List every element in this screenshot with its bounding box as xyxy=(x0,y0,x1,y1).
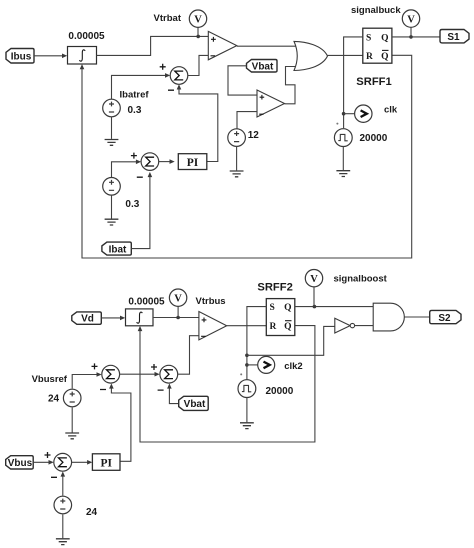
svg-text:V: V xyxy=(310,274,318,285)
output tag S2 xyxy=(430,310,461,323)
node Vtrbat junction xyxy=(196,35,200,39)
svg-text:R: R xyxy=(270,322,277,332)
wire SRFF1 Qbar to integrator reset xyxy=(80,55,412,258)
ground xyxy=(230,171,244,177)
op-amp comparator U3 xyxy=(257,90,285,117)
svg-text:Ibat: Ibat xyxy=(109,245,127,256)
wire Ibat to summer2 minus xyxy=(131,172,152,249)
svg-text:V: V xyxy=(194,15,202,26)
wire op-amp3 output to SRFF2 R xyxy=(227,325,267,327)
svg-text:Ibatref: Ibatref xyxy=(120,90,150,101)
wire OR output to SRFF1 R xyxy=(328,54,363,56)
ground xyxy=(336,171,350,177)
PI block PI2 xyxy=(92,454,120,471)
wire op-amp2 output to OR gate xyxy=(285,67,299,104)
dc source 24 xyxy=(54,496,72,514)
op-amp comparator U5 xyxy=(199,312,227,340)
svg-text:PI: PI xyxy=(100,457,112,469)
wire Ibatref source to summer1 xyxy=(112,73,171,99)
svg-text:Q: Q xyxy=(284,322,291,332)
svg-text:signalboost: signalboost xyxy=(334,274,388,285)
svg-text:Vd: Vd xyxy=(81,314,94,325)
summer S_3 xyxy=(92,363,120,389)
wire PI output to summer1 minus xyxy=(177,84,218,161)
wire summer1 output to op-amp minus xyxy=(188,55,209,75)
node clk junction xyxy=(342,112,346,116)
wire integrator output to op-amp xyxy=(97,36,209,55)
svg-text:SRFF1: SRFF1 xyxy=(356,76,391,88)
svg-text:V: V xyxy=(407,14,415,25)
output tag S1 xyxy=(440,30,469,44)
svg-text:Vbus: Vbus xyxy=(8,458,33,469)
svg-text:Q: Q xyxy=(381,52,388,62)
svg-text:signalbuck: signalbuck xyxy=(351,5,401,16)
node dot xyxy=(240,373,242,375)
wire summer3 to summer4 xyxy=(120,372,160,377)
PI block PI1 xyxy=(178,154,207,170)
svg-text:Vtrbus: Vtrbus xyxy=(196,296,226,307)
svg-text:0.3: 0.3 xyxy=(128,105,142,116)
integrator U1 (0.00005) xyxy=(68,47,97,65)
wire 24V source to summer3 xyxy=(72,372,102,388)
wire clock node to SRFF2 S xyxy=(247,307,266,380)
svg-text:0.00005: 0.00005 xyxy=(128,297,165,308)
svg-text:0.3: 0.3 xyxy=(125,199,139,210)
svg-text:S1: S1 xyxy=(447,32,460,43)
wire junction to inverter xyxy=(247,326,335,355)
wire junction to clk2 probe xyxy=(247,364,258,366)
wire summer4 output to op-amp3 minus xyxy=(178,336,199,375)
op-amp comparator U2 xyxy=(208,31,237,59)
node clk2 junction xyxy=(245,363,249,367)
wire source to ground xyxy=(111,195,113,219)
wire PI2 output to summer3 minus xyxy=(109,383,131,461)
wire summer2 to PI xyxy=(159,159,175,164)
wire 24V source2 to summer5 minus xyxy=(61,471,66,495)
label tag Ibat xyxy=(102,242,131,256)
svg-text:PI: PI xyxy=(187,157,199,169)
wire 0.3 source to summer2 xyxy=(112,160,142,178)
summer S_1 xyxy=(160,64,188,90)
svg-text:Q: Q xyxy=(284,303,291,313)
label tag Ibus xyxy=(6,49,34,64)
wire junction to clk probe xyxy=(344,113,355,115)
label tag Vbat xyxy=(247,60,278,73)
wire AND output to S2 xyxy=(404,316,429,318)
summer S_4 xyxy=(151,364,178,390)
OR gate G1 xyxy=(294,41,328,70)
svg-text:Vbat: Vbat xyxy=(252,61,274,72)
svg-text:S: S xyxy=(366,33,371,43)
svg-text:0.00005: 0.00005 xyxy=(68,31,105,42)
ground xyxy=(56,539,70,545)
voltmeter signalboost xyxy=(305,270,322,307)
SR flip-flop SRFF1 xyxy=(363,28,392,63)
svg-text:Vbat: Vbat xyxy=(184,399,206,410)
node dot xyxy=(336,123,338,125)
dc source 24 xyxy=(63,389,81,407)
dc source 12 xyxy=(228,129,246,147)
voltmeter signalbuck xyxy=(402,10,419,37)
SR flip-flop SRFF2 xyxy=(266,299,295,336)
wire summer5 to PI2 xyxy=(72,460,93,465)
label tag Vd xyxy=(72,312,102,325)
ground xyxy=(240,423,254,429)
voltmeter Vtrbus xyxy=(169,289,186,317)
svg-text:R: R xyxy=(366,52,373,62)
wire source to ground xyxy=(71,407,73,432)
wire Vd to integrator2 xyxy=(101,316,125,321)
node signalbuck junction xyxy=(409,35,413,39)
label tag Vbus xyxy=(6,456,34,470)
svg-text:Vtrbat: Vtrbat xyxy=(154,13,182,24)
wire source to ground xyxy=(62,514,64,538)
voltmeter Vtrbat xyxy=(189,10,206,36)
summer S_5 xyxy=(45,452,72,477)
label tag Vbat xyxy=(179,396,209,410)
wire SRFF2 Qbar to integrator2 reset xyxy=(138,326,315,442)
ground xyxy=(105,219,119,225)
summer S_2 xyxy=(131,153,159,178)
node inverter feed junction xyxy=(245,354,249,358)
svg-text:Ibus: Ibus xyxy=(11,52,32,63)
wire Ibus to integrator xyxy=(34,54,67,59)
wire source to ground xyxy=(236,146,238,170)
wire source to ground xyxy=(111,117,113,139)
wire SRFF2 Q to AND gate xyxy=(295,306,373,308)
ground xyxy=(105,140,119,146)
svg-text:24: 24 xyxy=(48,394,60,405)
ground xyxy=(65,433,79,439)
svg-text:Q: Q xyxy=(381,33,388,43)
wire clock node to SRFF1 S xyxy=(344,37,363,128)
AND gate G3 xyxy=(373,303,404,331)
svg-text:clk2: clk2 xyxy=(284,361,303,372)
wire source to ground xyxy=(342,147,344,171)
node signalboost junction xyxy=(313,305,317,309)
svg-text:S2: S2 xyxy=(438,313,451,324)
dc source Ibatref 0.3 xyxy=(103,99,121,117)
dc source 0.3 xyxy=(103,178,121,196)
wire Vbat to summer4 minus xyxy=(167,383,179,403)
wire source to ground xyxy=(246,398,248,423)
wire Vbat to op-amp2 plus xyxy=(228,66,257,95)
wire Vbus to summer5 xyxy=(33,460,54,465)
svg-text:24: 24 xyxy=(86,507,98,518)
inverter G2 xyxy=(335,318,373,333)
svg-text:SRFF2: SRFF2 xyxy=(257,282,292,294)
node Vtrbus junction xyxy=(176,316,180,320)
svg-text:S: S xyxy=(270,303,275,313)
wire op-amp2 minus to 12V source xyxy=(237,112,257,129)
integrator U4 (0.00005) xyxy=(126,309,154,326)
clock probe clk xyxy=(355,105,372,122)
square-wave source 20000 xyxy=(238,380,256,398)
clock probe clk2 xyxy=(258,356,275,373)
svg-text:V: V xyxy=(174,294,182,305)
svg-text:clk: clk xyxy=(384,105,398,116)
square-wave source 20000 xyxy=(334,129,352,147)
wire SRFF1 Q to S1 xyxy=(392,36,440,38)
svg-text:20000: 20000 xyxy=(266,386,294,397)
svg-text:20000: 20000 xyxy=(360,133,388,144)
svg-text:12: 12 xyxy=(248,130,260,141)
svg-text:Vbusref: Vbusref xyxy=(32,374,68,385)
wire integrator2 output to op-amp3 xyxy=(153,317,199,319)
wire op-amp1 output to OR gate xyxy=(237,45,299,47)
